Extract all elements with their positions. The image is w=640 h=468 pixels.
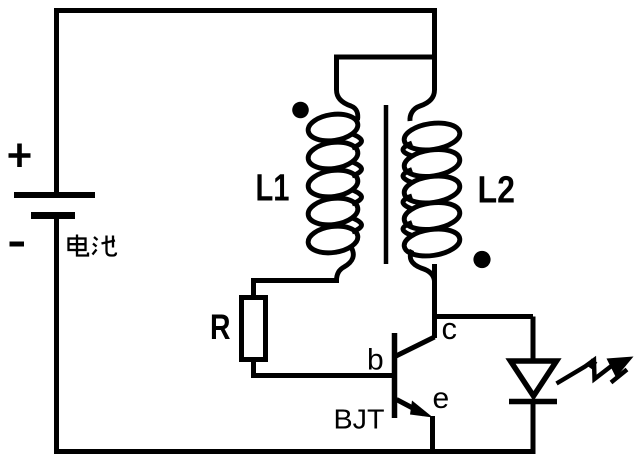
svg-text:BJT: BJT	[334, 404, 385, 435]
svg-text:L1: L1	[256, 168, 290, 210]
svg-text:c: c	[442, 311, 458, 346]
svg-text:R: R	[210, 308, 231, 347]
svg-text:L2: L2	[478, 170, 516, 212]
svg-text:b: b	[367, 344, 384, 377]
svg-text:e: e	[433, 382, 450, 415]
